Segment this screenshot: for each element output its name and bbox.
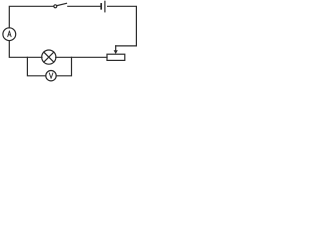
wire ammeter bottom down and right to lamp: [9, 41, 42, 58]
rheostat R (slide resistor box): [107, 54, 125, 60]
wiper arrow onto rheostat: [115, 46, 117, 51]
wire top-left: ammeter top up and right to switch: [9, 6, 53, 28]
wire switch to battery: [68, 5, 100, 7]
lamp L (circle with X): [42, 50, 56, 64]
voltmeter V (circle): [46, 71, 56, 81]
label A (ammeter): [8, 31, 11, 37]
wire voltmeter right, up to lamp wire: [56, 57, 71, 76]
label V (voltmeter): [49, 73, 53, 78]
ammeter A (circle): [3, 28, 16, 41]
battery cell: short thick negative plate: [100, 4, 102, 9]
wire lamp right to rheostat left: [56, 56, 107, 58]
wire battery to right side, down, and left to wiper: [108, 6, 137, 46]
battery cell: long thin positive plate: [104, 1, 106, 12]
voltmeter branch: junction down and right to voltmeter: [27, 57, 45, 76]
switch S1 (open knife switch): [54, 5, 57, 8]
